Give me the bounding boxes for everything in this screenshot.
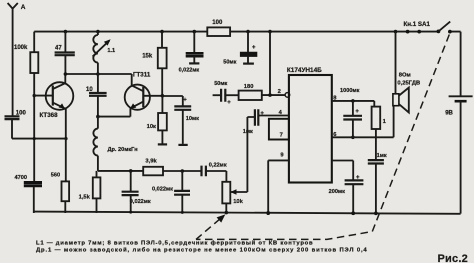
svg-text:0,022мк: 0,022мк [130,199,151,205]
svg-text:0,25ГДВ: 0,25ГДВ [397,80,420,86]
svg-text:10k: 10k [233,199,243,205]
svg-text:10мк: 10мк [186,116,199,122]
svg-text:ГТ311: ГТ311 [133,72,151,79]
svg-text:8Ом: 8Ом [399,73,411,79]
svg-text:+: + [227,100,231,106]
svg-text:10: 10 [86,87,93,93]
svg-text:+: + [355,109,359,115]
svg-text:50мк: 50мк [214,81,227,87]
svg-text:180: 180 [244,84,254,90]
svg-text:Др. 20мкГн: Др. 20мкГн [108,147,138,153]
svg-text:L1 — диаметр 7мм; 8 витков ПЭЛ: L1 — диаметр 7мм; 8 витков ПЭЛ-0,5,серде… [36,240,313,247]
svg-text:0,22мк: 0,22мк [209,162,227,168]
svg-text:100k: 100k [14,45,28,51]
svg-text:К174УН14Б: К174УН14Б [287,67,322,74]
svg-text:КТ368: КТ368 [40,112,59,119]
svg-text:100: 100 [16,111,27,117]
svg-text:200мк: 200мк [329,189,345,195]
svg-text:1,5k: 1,5k [79,194,91,200]
svg-text:9В: 9В [445,111,453,117]
svg-text:4700: 4700 [15,175,27,181]
svg-text:560: 560 [51,173,60,179]
svg-text:15k: 15k [142,54,153,60]
svg-text:+: + [252,45,256,51]
svg-text:+: + [183,98,187,104]
svg-text:Др.1 — можно заводской, либо н: Др.1 — можно заводской, либо на резистор… [36,246,368,253]
svg-text:Рис.2: Рис.2 [438,253,468,263]
svg-text:Кн.1 SA1: Кн.1 SA1 [404,21,431,28]
svg-text:1.1: 1.1 [107,48,115,54]
svg-text:3,9k: 3,9k [145,159,157,165]
svg-text:A: A [21,4,26,11]
svg-text:7: 7 [280,132,283,138]
svg-text:2: 2 [278,89,281,95]
svg-text:1мк: 1мк [243,129,253,135]
svg-text:0,022мк: 0,022мк [152,187,173,193]
svg-text:0,022мк: 0,022мк [179,67,200,73]
svg-text:1мк: 1мк [377,153,387,159]
svg-text:10к: 10к [147,124,156,130]
svg-text:47: 47 [55,46,62,52]
svg-text:50мк: 50мк [223,59,236,65]
svg-text:1000мк: 1000мк [340,88,360,94]
svg-text:100: 100 [212,20,223,26]
